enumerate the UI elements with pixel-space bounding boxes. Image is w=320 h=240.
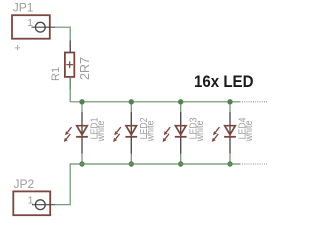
- R1 pin stub top: [69, 41, 71, 53]
- net bottom rail (cathode bus): [55, 164, 241, 205]
- junction dot bottom rail LED3: [178, 161, 183, 166]
- svg-text:R1: R1: [50, 67, 62, 81]
- connector JP1: [12, 15, 50, 39]
- wire LED2 branch (top rail to bottom rail): [130, 102, 132, 164]
- svg-text:+: +: [14, 42, 20, 54]
- top rail continuation dotted: [242, 101, 267, 103]
- wire LED4 branch (top rail to bottom rail): [229, 102, 231, 164]
- svg-text:16x LED: 16x LED: [194, 72, 254, 91]
- svg-text:white: white: [145, 120, 156, 142]
- svg-text:JP1: JP1: [13, 1, 34, 15]
- svg-text:2R7: 2R7: [78, 57, 92, 80]
- junction dot top rail LED4: [227, 99, 232, 104]
- svg-text:white: white: [244, 120, 255, 142]
- LED LED3: [163, 112, 187, 154]
- svg-text:white: white: [96, 120, 107, 142]
- junction dot bottom rail LED1: [79, 161, 84, 166]
- svg-text:white: white: [195, 120, 206, 142]
- JP1 pin 1 line: [32, 26, 56, 28]
- svg-text:JP2: JP2: [14, 177, 35, 191]
- JP2 pin 1 circle: [35, 200, 45, 210]
- wire LED3 branch (top rail to bottom rail): [180, 102, 182, 164]
- junction dot bottom rail LED2: [129, 161, 134, 166]
- junction dot top rail LED1: [79, 99, 84, 104]
- wire LED1 branch (top rail to bottom rail): [81, 102, 83, 164]
- JP2 pin 1 line: [32, 204, 55, 206]
- LED LED2: [113, 112, 137, 154]
- LED LED1: [64, 112, 88, 154]
- LED LED4: [212, 112, 236, 154]
- bottom rail continuation dotted: [242, 163, 267, 165]
- svg-text:1: 1: [28, 194, 34, 206]
- net top rail (anode bus): [70, 101, 240, 103]
- junction dot top rail LED3: [178, 99, 183, 104]
- connector JP2: [13, 191, 50, 215]
- svg-text:1: 1: [27, 17, 33, 29]
- junction dot top rail LED2: [129, 99, 134, 104]
- R1 pin stub bottom: [69, 77, 71, 90]
- wire R1 to top rail: [69, 77, 71, 102]
- junction dot bottom rail LED4: [227, 161, 232, 166]
- JP1 pin 1 circle: [35, 22, 45, 32]
- wire JP1 pin to R1: [55, 27, 70, 52]
- resistor R1: [65, 53, 74, 77]
